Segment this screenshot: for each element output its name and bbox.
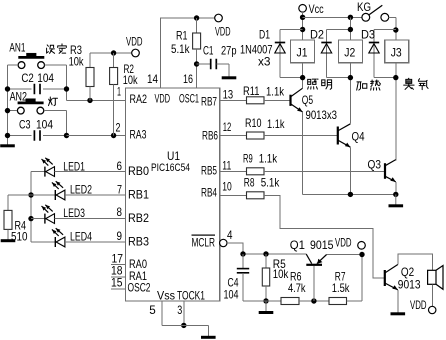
svg-text:5.1k: 5.1k: [171, 42, 190, 56]
Vcc terminal: [299, 5, 307, 13]
label ChouYang: [404, 78, 414, 89]
speaker LS: [428, 270, 436, 284]
wire Vcc rail: [302, 12, 304, 40]
svg-text:15: 15: [111, 276, 123, 290]
svg-text:Q1: Q1: [290, 238, 306, 252]
svg-text:RB1: RB1: [128, 188, 149, 202]
svg-text:TOCK1: TOCK1: [177, 289, 205, 303]
VDD terminal Q1: [358, 242, 366, 250]
svg-text:RB4: RB4: [201, 186, 217, 200]
svg-text:RB5: RB5: [201, 163, 217, 177]
svg-text:C2: C2: [21, 71, 34, 85]
svg-text:10k: 10k: [69, 55, 85, 69]
svg-text:VDD: VDD: [126, 35, 143, 49]
label SheDing: [47, 45, 55, 53]
diode D3: [374, 29, 396, 31]
wire speaker to VDD: [432, 284, 434, 306]
svg-text:Q4: Q4: [352, 129, 365, 143]
svg-text:C3: C3: [19, 117, 31, 131]
transistor Q5 9013: [289, 95, 291, 106]
svg-text:104: 104: [37, 71, 54, 85]
relay J3: [385, 40, 409, 63]
svg-text:1.5k: 1.5k: [332, 281, 350, 295]
svg-text:RB0: RB0: [128, 164, 149, 178]
VDD terminal Q2: [429, 306, 436, 313]
label JiaRe: [357, 82, 367, 90]
resistor R2 10k: [113, 53, 115, 68]
svg-text:4.7k: 4.7k: [288, 281, 306, 295]
svg-text:R9: R9: [243, 152, 253, 166]
svg-text:OSC1: OSC1: [179, 92, 199, 106]
svg-text:VDD: VDD: [335, 236, 352, 250]
svg-text:RA2: RA2: [130, 92, 148, 106]
wire pin14 to VDD rail: [161, 18, 215, 88]
resistor R7 1.5k: [329, 298, 347, 305]
svg-text:KG: KG: [357, 0, 371, 14]
svg-text:6: 6: [117, 159, 123, 173]
label Deng: [49, 97, 58, 106]
capacitor C4 104: [242, 254, 244, 269]
svg-text:LED4: LED4: [70, 230, 92, 244]
svg-text:C1: C1: [203, 44, 214, 58]
svg-text:13: 13: [223, 88, 234, 102]
svg-text:8: 8: [117, 205, 123, 219]
svg-text:D3: D3: [361, 28, 375, 42]
svg-text:LED2: LED2: [70, 183, 92, 197]
svg-text:RA3: RA3: [130, 128, 147, 142]
svg-text:LED1: LED1: [63, 160, 85, 174]
svg-text:R11: R11: [243, 84, 260, 98]
VDD terminal top-mid: [215, 14, 223, 22]
svg-text:x3: x3: [258, 55, 271, 69]
MCLR pin 4: [220, 239, 227, 246]
pushbutton AN2: [18, 102, 44, 105]
svg-text:10k: 10k: [123, 73, 139, 87]
svg-text:RB2: RB2: [128, 211, 149, 225]
svg-text:9013x3: 9013x3: [306, 108, 338, 122]
svg-text:R1: R1: [176, 29, 188, 43]
svg-text:J1: J1: [297, 46, 308, 60]
VDD terminal top-left: [132, 49, 140, 57]
ground left rail: [0, 144, 15, 147]
resistor R10 1.1k: [220, 135, 247, 137]
svg-text:RB6: RB6: [202, 129, 218, 143]
svg-text:9015: 9015: [310, 238, 334, 252]
wire Vss pin5: [161, 301, 163, 325]
svg-text:J3: J3: [391, 46, 402, 60]
wire emitter rail: [303, 193, 396, 195]
svg-text:12: 12: [223, 120, 232, 134]
label ZhaoMing: [308, 79, 318, 89]
diode D1 1N4007: [280, 29, 303, 31]
relay J2: [349, 17, 351, 40]
svg-text:3: 3: [177, 303, 182, 317]
wire left rail: [7, 65, 9, 145]
svg-text:VDD: VDD: [410, 298, 427, 312]
ground Vss: [201, 336, 216, 337]
transistor Q4: [337, 127, 339, 145]
svg-text:R8: R8: [244, 175, 255, 189]
ground C1: [222, 64, 237, 78]
wire LED rail: [30, 172, 32, 242]
svg-text:27p: 27p: [221, 44, 237, 58]
svg-text:11: 11: [222, 158, 231, 172]
resistor R6 4.7k: [281, 298, 299, 305]
relay J1: [291, 40, 315, 63]
svg-text:Q5: Q5: [302, 93, 314, 107]
svg-text:1.1k: 1.1k: [259, 152, 278, 166]
wire Q2 emitter: [397, 290, 399, 313]
svg-text:Vss: Vss: [157, 289, 175, 303]
capacitor C3 104: [8, 135, 32, 137]
svg-text:D2: D2: [310, 28, 324, 42]
pushbutton AN1: [18, 56, 44, 59]
transistor Q2 9013: [384, 270, 386, 286]
svg-text:D1: D1: [259, 28, 270, 42]
LED4: [31, 241, 55, 243]
resistor R9 1.1k: [220, 170, 247, 172]
svg-text:J2: J2: [344, 46, 355, 60]
resistor R4 510: [8, 194, 31, 196]
svg-text:2: 2: [116, 121, 121, 135]
resistor R11 1.1k: [220, 99, 247, 101]
wire to ground: [162, 324, 209, 326]
svg-text:Q3: Q3: [368, 158, 382, 172]
svg-text:PIC16C54: PIC16C54: [151, 162, 190, 174]
LED1: [31, 171, 45, 173]
op-amp U1 PIC16C54 IC body: [126, 88, 220, 301]
resistor R1 5.1k: [196, 18, 198, 33]
svg-text:10: 10: [222, 180, 232, 194]
svg-text:104: 104: [224, 288, 239, 302]
svg-text:RB7: RB7: [201, 95, 217, 109]
transistor Q3: [384, 163, 386, 179]
svg-text:OSC2: OSC2: [128, 281, 151, 295]
svg-text:7: 7: [117, 183, 122, 197]
svg-text:AN2: AN2: [10, 89, 28, 103]
svg-text:10k: 10k: [273, 267, 289, 281]
svg-text:9013: 9013: [398, 278, 421, 292]
svg-text:VDD: VDD: [155, 92, 171, 106]
svg-text:1.1k: 1.1k: [266, 85, 285, 99]
wire AN2 leads: [8, 110, 18, 112]
svg-text:R10: R10: [245, 116, 262, 130]
svg-text:AN1: AN1: [9, 41, 25, 55]
wire TOCK1 pin3: [183, 301, 185, 325]
svg-text:5: 5: [149, 303, 156, 317]
wire R8 to Q2 base: [264, 195, 384, 278]
svg-text:VDD: VDD: [215, 25, 231, 39]
pin stubs RA0 RA1 OSC2: [111, 264, 126, 266]
svg-text:U1: U1: [167, 149, 180, 163]
ground emitter rail: [389, 194, 404, 205]
svg-text:1.1k: 1.1k: [267, 117, 285, 131]
wire bottom rail: [243, 300, 281, 302]
LED2: [31, 194, 55, 196]
svg-text:RB3: RB3: [128, 235, 149, 249]
svg-text:9: 9: [117, 229, 123, 243]
svg-text:5.1k: 5.1k: [261, 175, 280, 189]
ground Q2: [391, 312, 406, 315]
ground R5: [259, 301, 274, 313]
wire node RA3: [67, 135, 126, 137]
svg-text:MCLR: MCLR: [192, 236, 216, 250]
wire AN1 leads: [8, 64, 18, 66]
resistor R3 10k: [89, 53, 91, 68]
LED3: [31, 218, 45, 220]
wire to VDD: [90, 52, 132, 54]
node OSC1/C1: [194, 61, 199, 66]
svg-text:1: 1: [117, 85, 121, 99]
svg-text:104: 104: [36, 117, 53, 131]
svg-text:LED3: LED3: [63, 206, 85, 220]
wire Q1 collector node: [243, 253, 306, 255]
wire node RA2: [67, 99, 126, 101]
resistor R8 5.1k: [220, 194, 247, 196]
svg-text:16: 16: [183, 72, 193, 86]
svg-text:Vcc: Vcc: [309, 2, 324, 16]
resistor R5 10k: [265, 254, 267, 268]
capacitor C2 104: [8, 88, 32, 90]
svg-text:14: 14: [147, 72, 158, 86]
diode D2: [327, 29, 351, 31]
capacitor C1 27p: [197, 63, 211, 65]
wire Q2 collector: [398, 254, 433, 270]
svg-text:4: 4: [227, 228, 233, 242]
node R1 top: [194, 15, 199, 20]
ground R4: [1, 239, 16, 242]
